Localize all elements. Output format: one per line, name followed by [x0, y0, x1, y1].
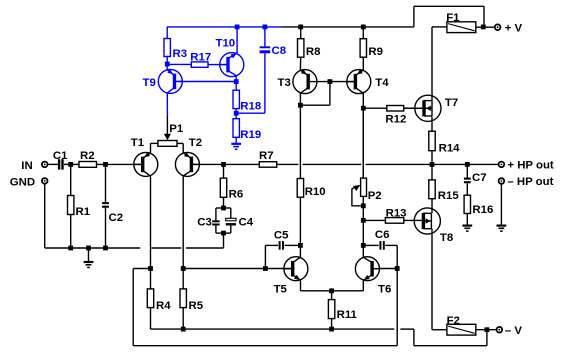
svg-text:R14: R14 [439, 142, 461, 154]
svg-text:T7: T7 [445, 97, 458, 109]
wire T8 source [432, 229, 447, 330]
ground R16 [462, 226, 472, 232]
wire T3 collector [299, 93, 301, 179]
resistor R9 [360, 27, 383, 71]
svg-text:IN: IN [21, 160, 32, 172]
wire C8-R18R19 [236, 112, 265, 114]
svg-text:P1: P1 [169, 123, 184, 135]
wire [476, 26, 495, 28]
node junction R14-R15 [430, 162, 435, 167]
transistor T2 [175, 137, 202, 176]
svg-text:– V: – V [505, 325, 522, 337]
node junction R5-rail [181, 327, 186, 332]
svg-text:C4: C4 [239, 216, 254, 228]
resistor R13 [363, 208, 422, 224]
node junction P2 wiper [361, 203, 366, 208]
svg-text:R19: R19 [240, 129, 261, 141]
wire left loop [133, 269, 397, 346]
wire bottom rail [151, 329, 487, 346]
node junction C1-R2 [68, 162, 73, 167]
node junction C6 tap [361, 243, 366, 248]
potentiometer P1 [151, 123, 184, 153]
wire main row [277, 163, 499, 165]
svg-text:T8: T8 [440, 232, 453, 244]
wire [44, 184, 46, 248]
node junction R18-R19 [234, 111, 239, 116]
capacitor C1 [53, 150, 68, 170]
resistor R6 [220, 164, 243, 208]
resistor R5 [180, 289, 204, 329]
wire P2 wiper [352, 185, 363, 206]
svg-text:T6: T6 [378, 283, 391, 295]
transistor T1 [131, 137, 158, 176]
resistor R19 [233, 119, 261, 141]
node junction R13 tap [361, 218, 366, 223]
capacitor C6 [363, 229, 397, 268]
svg-text:R9: R9 [368, 46, 383, 58]
node junction C3C4 top [221, 206, 226, 211]
svg-text:F1: F1 [446, 12, 460, 24]
resistor R15 [429, 164, 460, 213]
svg-text:R10: R10 [305, 186, 326, 198]
transistor T6 [355, 257, 391, 296]
node junction bases [328, 79, 333, 84]
resistor R18 [233, 90, 261, 113]
node junction R3-R17 [165, 62, 170, 67]
wire P1 wiper [164, 116, 171, 140]
resistor R11 [328, 291, 357, 329]
svg-text:R5: R5 [189, 300, 204, 312]
svg-text:C7: C7 [472, 172, 487, 184]
wire T2 collector [182, 176, 184, 289]
capacitor C8 [260, 27, 286, 113]
svg-text:R2: R2 [80, 150, 95, 162]
resistor R10 [297, 179, 325, 257]
transistor T3 [278, 69, 318, 93]
wire T3-T4 bases [317, 81, 354, 83]
node junction C7-top [465, 162, 470, 167]
resistor R2 [79, 150, 97, 167]
svg-text:R7: R7 [259, 150, 274, 162]
wire T6base down [396, 269, 398, 346]
svg-text:F2: F2 [447, 315, 460, 327]
node junction F2-V [485, 327, 490, 332]
svg-text:GND: GND [10, 177, 35, 189]
svg-text:R18: R18 [240, 101, 261, 113]
node junction T9base-T10coll [234, 79, 239, 84]
svg-text:T1: T1 [131, 137, 145, 149]
svg-text:C3: C3 [197, 216, 212, 228]
node junction R1-gnd [68, 246, 73, 251]
wire [97, 163, 142, 165]
svg-text:R13: R13 [386, 208, 407, 220]
svg-text:T3: T3 [278, 77, 291, 89]
svg-text:R8: R8 [306, 46, 321, 58]
resistor R16 [464, 195, 493, 225]
transistor T9 [143, 69, 183, 93]
node junction T2-coll [181, 266, 186, 271]
svg-text:R1: R1 [76, 206, 91, 218]
svg-text:R16: R16 [472, 204, 493, 216]
wire T6 emitter [362, 280, 364, 291]
wire top rail [281, 6, 484, 27]
node junction rail-C8 [263, 25, 268, 30]
node junction T6base [395, 266, 400, 271]
node junction R10-C5 [298, 243, 303, 248]
transistor T7 [415, 95, 458, 121]
svg-text:T5: T5 [274, 283, 288, 295]
transistor T8 [414, 208, 453, 244]
node junction R11 top [329, 288, 334, 293]
node junction R11-rail [329, 327, 334, 332]
transistor T10 [216, 38, 244, 77]
resistor R8 [298, 27, 321, 71]
capacitor C4 [226, 208, 254, 233]
svg-text:C8: C8 [272, 45, 287, 57]
node junction C3C4 bottom [221, 231, 226, 236]
ground blue [231, 137, 241, 149]
wire T5 emitter [301, 280, 364, 291]
resistor R4 [147, 289, 171, 329]
resistor R17 [167, 52, 226, 68]
svg-text:C5: C5 [274, 229, 289, 241]
node +V terminal [494, 22, 523, 34]
wire F1 left drop [432, 27, 447, 101]
svg-text:T2: T2 [189, 137, 202, 149]
wire T1 collector [150, 176, 152, 289]
capacitor C3 [197, 208, 219, 233]
node junction T3coll [298, 103, 303, 108]
ground [84, 248, 94, 268]
svg-text:R12: R12 [385, 113, 406, 125]
wire blue rail [167, 26, 281, 28]
transistor T5 [274, 257, 308, 296]
wire -HP gnd [500, 184, 502, 226]
capacitor C5 [265, 229, 300, 268]
potentiometer P2 [361, 108, 382, 257]
resistor R14 [429, 117, 460, 165]
node junction C2-gnd [103, 246, 108, 251]
wire T10 emitter [236, 27, 238, 53]
svg-text:+ V: + V [505, 22, 523, 34]
svg-text:R6: R6 [229, 189, 244, 201]
fuse F2 [447, 315, 476, 335]
wire T9 collector [166, 93, 168, 116]
node junction rail-R9 [361, 25, 366, 30]
svg-text:R15: R15 [438, 190, 460, 202]
svg-text:C2: C2 [109, 212, 124, 224]
fuse F1 [446, 12, 476, 33]
node junction R2-T1 [103, 162, 108, 167]
node junction T4coll-R12 [361, 106, 366, 111]
wire [64, 163, 79, 165]
resistor R3 [164, 27, 187, 70]
node junction gnd-sym [86, 246, 91, 251]
svg-text:R4: R4 [156, 300, 171, 312]
svg-text:R3: R3 [173, 48, 188, 60]
node -HP out terminal [498, 176, 554, 188]
svg-text:T9: T9 [143, 77, 156, 89]
capacitor C2 [102, 164, 123, 248]
svg-text:– HP out: – HP out [507, 176, 553, 188]
node junction rail-T10 [235, 25, 240, 30]
node junction rail-R8 [298, 25, 303, 30]
svg-text:T10: T10 [216, 38, 236, 50]
svg-text:T4: T4 [375, 77, 389, 89]
svg-text:C1: C1 [53, 150, 68, 162]
wire T4 collector [362, 93, 364, 178]
node GND terminal [10, 177, 49, 189]
resistor R12 [363, 106, 422, 126]
capacitor C7 [464, 164, 487, 195]
wire C3C4 box bottom [216, 232, 231, 234]
node +HP out terminal [498, 160, 554, 172]
svg-text:P2: P2 [368, 190, 382, 202]
node junction C5 tap [263, 266, 268, 271]
node junction F1-V [481, 25, 486, 30]
wire T2coll-T5base [183, 268, 291, 270]
wire C3C4 box top [216, 207, 231, 209]
ground -HP [497, 226, 507, 232]
node junction R6-top [221, 162, 226, 167]
node junction T1-coll [148, 266, 153, 271]
node -V terminal [496, 325, 523, 337]
node IN terminal [21, 160, 48, 172]
wire [48, 163, 58, 165]
wire [235, 109, 237, 119]
resistor R1 [68, 164, 91, 248]
wire gnd rail [45, 233, 224, 248]
wire T9 base [178, 81, 236, 83]
wire [476, 329, 497, 331]
svg-text:C6: C6 [375, 229, 390, 241]
svg-text:+ HP out: + HP out [507, 160, 554, 172]
resistor R7 [193, 150, 277, 167]
transistor T4 [346, 69, 389, 93]
wire T6 base [380, 268, 397, 270]
wire base-collector tie [300, 82, 330, 106]
wire [235, 76, 237, 90]
svg-text:R17: R17 [190, 52, 211, 64]
svg-text:R11: R11 [337, 309, 358, 321]
